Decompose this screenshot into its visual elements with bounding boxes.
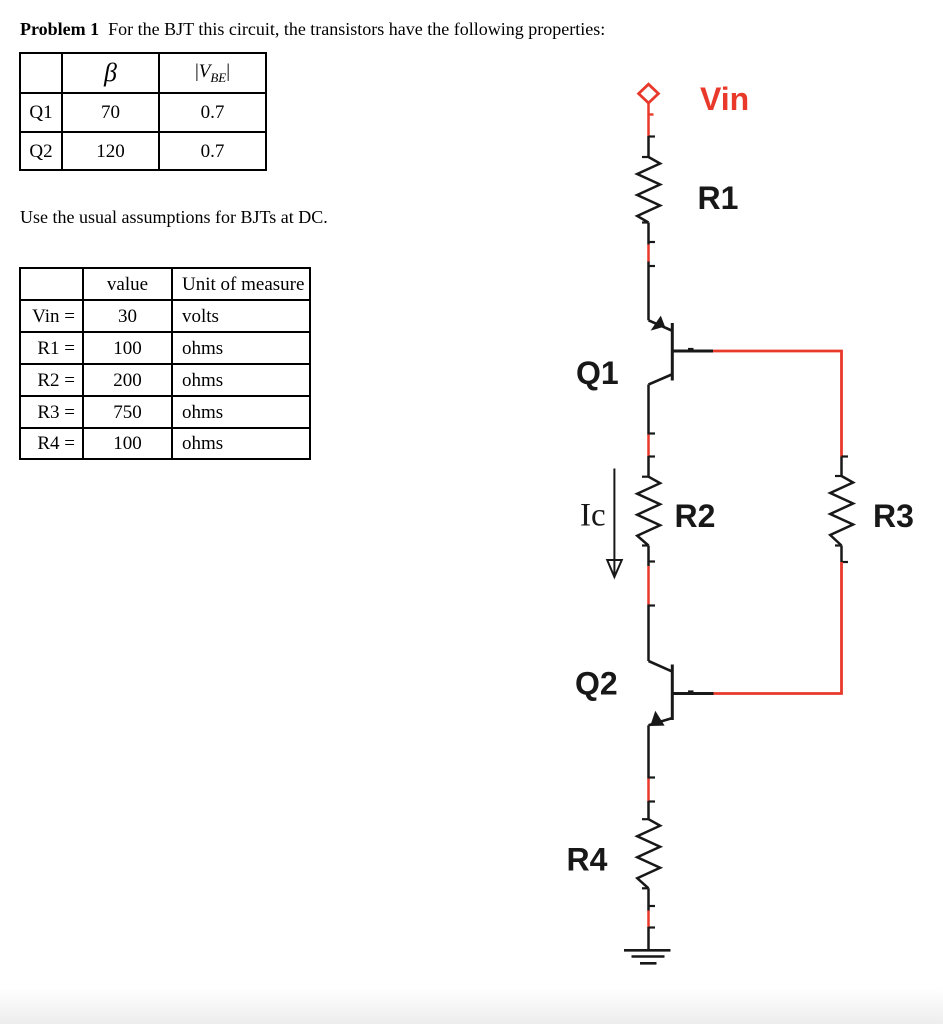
bottom gray gradient bar xyxy=(0,988,943,1024)
Ic current arrow shaft xyxy=(613,469,615,576)
pin dash R2 bottom xyxy=(642,544,649,546)
wire R1 bottom to red segment xyxy=(647,223,650,245)
wire R2 bottom short black xyxy=(647,546,650,567)
wire red segment below R4 xyxy=(647,911,650,928)
node Vin input terminal (red diamond) xyxy=(639,84,659,103)
node tick below R2 xyxy=(649,560,656,562)
wire red segment below R2 xyxy=(647,566,650,605)
wire Q1 base to R3 top (red net) xyxy=(713,351,842,457)
node tick below red segment xyxy=(649,265,656,267)
problem statement paragraph xyxy=(20,20,605,38)
assumptions sentence xyxy=(20,208,328,226)
pin dash R3 bottom xyxy=(835,544,842,546)
node tick above red segment xyxy=(649,241,656,243)
node tick below red segment above R2 xyxy=(649,455,656,457)
pin tick on Q1 base lead xyxy=(688,348,694,350)
pin dash R4 top xyxy=(642,818,649,820)
pin dash R3 top xyxy=(835,475,842,477)
wire red segment below Q2 xyxy=(647,779,650,802)
wire down to R4 top xyxy=(647,801,650,819)
transistor Q2 collector lead xyxy=(649,661,672,671)
node tick below red segment xyxy=(649,800,656,802)
transistor Q2 emitter lead xyxy=(649,718,672,725)
node tick right rail above R3 xyxy=(842,455,849,457)
wire R3 bottom short black xyxy=(840,546,843,563)
svg-text:Ic: Ic xyxy=(580,498,606,534)
transistor Q2 emitter arrow (NPN) xyxy=(650,711,664,726)
transistor Q1 emitter lead xyxy=(649,320,672,330)
svg-text:Q2: Q2 xyxy=(575,666,618,702)
wire from net boundary to R1 top xyxy=(647,136,650,157)
svg-text:Q1: Q1 xyxy=(576,355,619,391)
node tick above red segment below R4 xyxy=(649,905,656,907)
resistor R1 xyxy=(637,157,660,223)
ground xyxy=(624,949,671,952)
wire down to Q2 collector xyxy=(647,605,650,662)
wire to ground xyxy=(647,927,650,950)
transistor Q1 collector lead xyxy=(649,375,672,385)
resistor R3 xyxy=(830,476,853,546)
pin tick on Q2 base lead xyxy=(688,690,694,692)
resistor R4 xyxy=(637,819,660,888)
wire Q1 collector down xyxy=(647,385,650,435)
wire Vin net (red) from diamond to R1 xyxy=(647,103,650,136)
transistor Q1 emitter arrow (PNP) xyxy=(651,316,665,331)
svg-text:R2: R2 xyxy=(675,498,716,534)
wire Q1 base lead (black part) xyxy=(673,350,713,353)
pin dash R4 bottom xyxy=(642,887,649,889)
Ic arrowhead (hollow triangle) xyxy=(607,560,622,577)
wire red segment below R1 xyxy=(647,245,650,262)
svg-text:R1: R1 xyxy=(698,180,739,216)
wire to R2 top xyxy=(647,456,650,477)
node tick below R3 xyxy=(842,561,849,563)
wire to R3 top xyxy=(840,457,843,477)
node tick (black) at net boundary above R1 xyxy=(649,135,656,137)
pin dash R1 bottom xyxy=(642,221,649,223)
svg-text:Vin: Vin xyxy=(700,81,749,117)
transistor Q2 base bar xyxy=(671,665,674,721)
wire R3 bottom to Q2 base (red net) xyxy=(714,562,842,694)
svg-text:R4: R4 xyxy=(567,842,608,878)
pin dash R2 top xyxy=(642,476,649,478)
node tick below red segment xyxy=(649,604,656,606)
wire Q2 base lead (black part) xyxy=(673,692,714,695)
node tick (red) on Vin net xyxy=(649,113,654,115)
wire R4 bottom short black xyxy=(647,888,650,910)
node tick above red segment below Q2 xyxy=(649,776,656,778)
wire down to Q1 emitter xyxy=(647,262,650,321)
pin dash R1 top xyxy=(642,156,649,158)
node tick below red segment xyxy=(649,926,656,928)
transistor Q1 base bar xyxy=(671,323,674,381)
transistor properties table xyxy=(19,52,267,171)
resistor R2 xyxy=(637,477,660,546)
svg-text:R3: R3 xyxy=(873,498,914,534)
values table xyxy=(19,267,311,460)
wire Q2 emitter down xyxy=(647,725,650,778)
node tick above red segment (R2 top net) xyxy=(649,432,656,434)
wire red segment above R2 xyxy=(647,435,650,457)
